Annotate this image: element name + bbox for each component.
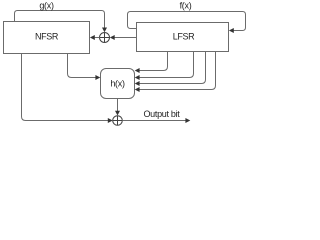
- LFSR register box: [137, 23, 229, 52]
- output wire from XOR X2: [122, 120, 186, 122]
- h(x) filter box: [101, 69, 135, 99]
- arrowhead into h(x) left edge: [95, 75, 100, 80]
- svg-text:f(x): f(x): [180, 0, 192, 10]
- NFSR register box: [4, 22, 90, 54]
- arrowhead into NFSR right edge: [90, 35, 95, 40]
- wire NFSR tap to h(x) left input: [68, 54, 96, 78]
- arrowhead tap 3 into h(x) right edge: [135, 81, 140, 86]
- svg-text:Output bit: Output bit: [143, 109, 180, 119]
- f(x) feedback wire from LFSR left edge around to LFSR right edge: [128, 12, 246, 31]
- svg-text:LFSR: LFSR: [173, 32, 195, 42]
- g(x) feedback wire from NFSR top to XOR X1: [15, 11, 105, 28]
- wire LFSR tap 2 to h(x): [139, 52, 193, 78]
- wire LFSR tap 1 to h(x): [139, 52, 167, 71]
- svg-text:g(x): g(x): [39, 0, 54, 10]
- wire LFSR tap 3 to h(x): [139, 52, 205, 84]
- XOR node X2: [113, 116, 123, 126]
- wire XOR X1 to NFSR input: [95, 37, 100, 39]
- wire NFSR left tap down and along bottom to output XOR X2: [22, 54, 109, 121]
- XOR node X1: [100, 33, 110, 43]
- arrowhead tap 4 into h(x) right edge: [135, 87, 140, 92]
- svg-text:h(x): h(x): [110, 79, 125, 89]
- arrowhead into XOR X2 left: [108, 118, 113, 123]
- arrowhead into XOR X1 right: [110, 35, 115, 40]
- wire LFSR output to XOR X1: [114, 37, 136, 39]
- arrowhead tap 1 into h(x) right edge: [135, 68, 140, 73]
- svg-text:NFSR: NFSR: [35, 31, 59, 41]
- arrowhead tap 2 into h(x) right edge: [135, 75, 140, 80]
- arrowhead g(x) into XOR X1: [102, 28, 107, 33]
- arrowhead f(x) into LFSR right edge: [229, 28, 234, 33]
- wire h(x) output down to XOR X2: [117, 99, 119, 112]
- arrowhead output bit: [185, 118, 190, 123]
- wire LFSR tap 4 to h(x): [139, 52, 215, 90]
- arrowhead into XOR X2 top: [115, 111, 120, 116]
